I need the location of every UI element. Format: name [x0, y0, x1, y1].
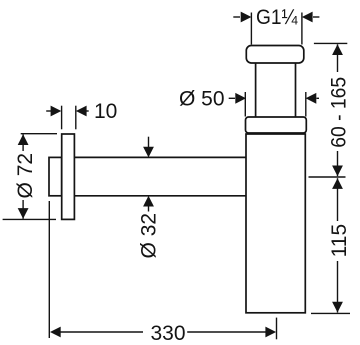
svg-text:Ø 50: Ø 50: [179, 88, 225, 111]
dim G1-1/4 right arrow tail: [313, 16, 319, 18]
dim 60-165 top extension line: [314, 42, 347, 44]
dim G1-1/4 left arrowhead: [241, 12, 252, 23]
dim D50 left extension line: [244, 92, 246, 117]
dim D72 upper line segment: [22, 134, 24, 151]
wall rosette: [62, 134, 75, 219]
trap body: [246, 134, 305, 313]
dim 330 left extension line: [48, 201, 50, 338]
neck tube right edge: [295, 63, 297, 117]
svg-text:Ø 32: Ø 32: [137, 213, 160, 259]
dim D32 lower arrowhead: [143, 196, 154, 207]
dim D72 bottom arrowhead: [18, 208, 29, 219]
dim D32 upper arrow tail: [148, 137, 150, 149]
dim D50 right arrowhead: [306, 93, 317, 104]
dim 60-165 lower line segment: [337, 151, 339, 176]
dim D50 right arrow tail: [317, 97, 320, 99]
dim 115 bottom arrowhead: [332, 302, 343, 313]
dim D50 right extension line: [305, 92, 307, 117]
dim 115 top arrowhead: [332, 178, 343, 189]
dim G1-1/4 left arrow tail: [233, 16, 240, 18]
slip nut: [246, 117, 307, 133]
dim G1-1/4 right arrowhead: [302, 12, 313, 23]
dim 10 left arrow tail: [46, 110, 52, 112]
dim 10 right arrow tail: [85, 110, 89, 112]
dim 60-165 top arrowhead: [332, 44, 343, 55]
svg-text:G1¼: G1¼: [256, 6, 298, 29]
dim 10 right extension line: [75, 106, 77, 130]
dim 60-165 bottom arrowhead: [332, 166, 343, 177]
dim 330 left arrowhead: [50, 327, 61, 338]
dim 115 upper line segment: [337, 178, 339, 221]
horizontal pipe top edge: [74, 156, 246, 158]
dim D72 bottom extension line: [3, 218, 56, 220]
dim 115 lower line segment: [337, 261, 339, 313]
horizontal pipe bottom edge: [74, 195, 246, 197]
svg-text:60 - 165: 60 - 165: [328, 77, 351, 148]
dim 10 left arrowhead: [51, 106, 62, 117]
dim 10 left extension line: [61, 106, 63, 130]
dim D50 left arrow tail: [229, 97, 235, 99]
dim G1-1/4 left extension line: [250, 13, 252, 45]
svg-text:330: 330: [150, 322, 185, 345]
dim 330 right arrowhead: [265, 327, 276, 338]
dim G1-1/4 right extension line: [301, 13, 303, 45]
dim D72 top extension line: [21, 133, 57, 135]
dim D72 lower line segment: [22, 200, 24, 219]
svg-text:10: 10: [94, 100, 117, 123]
dim 10 right arrowhead: [76, 106, 87, 117]
dim D32 upper arrowhead: [143, 147, 154, 158]
dim 60-165 upper line segment: [337, 44, 339, 72]
dim 115 bottom extension line: [311, 312, 350, 314]
neck tube left edge: [255, 63, 257, 117]
dim 330 right line segment: [187, 331, 266, 333]
dim 330 left line segment: [60, 331, 143, 333]
dim D72 top arrowhead: [18, 134, 29, 145]
svg-text:115: 115: [328, 224, 351, 257]
dim 330 right extension line: [276, 318, 278, 340]
mid reference line: [309, 176, 346, 178]
top cap: [246, 46, 303, 64]
dim D32 lower arrow tail: [148, 204, 150, 212]
svg-text:Ø 72: Ø 72: [14, 153, 37, 199]
dim D50 left arrowhead: [235, 93, 246, 104]
wall pipe stub: [49, 157, 62, 195]
